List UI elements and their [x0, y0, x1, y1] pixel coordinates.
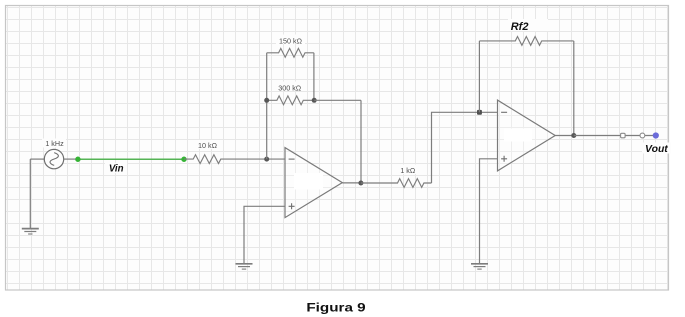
junction U2 output: [571, 133, 576, 138]
op-amp U1: [285, 148, 342, 218]
wire source to ground: [29, 159, 31, 228]
wire feedback left vertical: [266, 53, 268, 159]
resistor Rf2: [479, 37, 573, 46]
label Vout: [642, 143, 671, 155]
junction green left: [75, 157, 80, 162]
svg-text:Vout: Vout: [645, 144, 668, 155]
junction 300k right: [312, 98, 317, 103]
junction U1 output: [358, 181, 363, 186]
resistor R4 1k: [361, 179, 432, 188]
ground GND2: [236, 264, 253, 269]
wire feedback to output top: [314, 99, 361, 101]
label Vin: [105, 163, 127, 175]
op-amp U2: [498, 100, 556, 171]
wire feedback right vertical: [360, 100, 362, 183]
svg-text:150 kΩ: 150 kΩ: [279, 36, 303, 45]
caption Figura 9: [306, 301, 366, 314]
wire source left lead: [30, 158, 44, 160]
ground GND1: [22, 229, 39, 234]
svg-text:Vin: Vin: [109, 164, 124, 175]
wire U1 output: [342, 182, 361, 184]
wire Rf2 right vertical: [573, 41, 575, 136]
wire U1 noninverting input: [244, 206, 285, 263]
wire Rf2 left vertical: [478, 41, 480, 112]
svg-text:Figura 9: Figura 9: [306, 301, 366, 314]
wire U2 noninverting input: [480, 159, 498, 264]
svg-text:1 kΩ: 1 kΩ: [400, 166, 416, 175]
wire source to node Vin: [64, 158, 78, 160]
wire 1k to U2 inverting input: [432, 112, 498, 183]
junction 300k left: [264, 98, 269, 103]
svg-text:10 kΩ: 10 kΩ: [198, 141, 218, 150]
label 10 kOhm: [195, 140, 220, 150]
wire U2 output: [555, 135, 574, 137]
label Rf2: [508, 19, 548, 33]
junction inverting input U1: [264, 157, 269, 162]
wire 150k right vertical: [313, 53, 315, 101]
wire output to terminal: [574, 135, 653, 137]
node Vin green wire: [78, 158, 184, 160]
label 1 kHz: [42, 139, 66, 149]
resistor R1 10k: [184, 155, 285, 164]
svg-text:300 kΩ: 300 kΩ: [278, 84, 302, 93]
svg-text:1 kHz: 1 kHz: [45, 139, 64, 148]
terminal circle marker: [640, 133, 645, 138]
ground GND3: [471, 264, 488, 269]
label 300 kOhm: [275, 82, 304, 93]
label 1 kOhm: [397, 165, 419, 176]
node Vout terminal dot: [653, 132, 659, 138]
resistor R3 300k: [267, 96, 315, 105]
AC source V1: [44, 149, 63, 168]
label 150 kOhm: [276, 35, 305, 46]
junction square Rf2 left node: [477, 110, 482, 115]
svg-text:Rf2: Rf2: [511, 21, 529, 33]
junction green right: [181, 157, 186, 162]
resistor R2 150k: [267, 48, 314, 57]
terminal square marker: [621, 133, 626, 138]
